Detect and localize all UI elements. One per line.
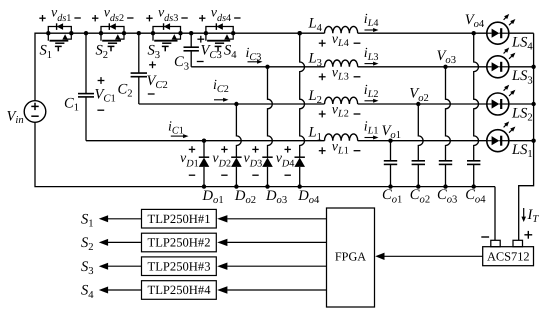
junction: D1 anode on ground rail [202,184,206,188]
transistor S3 (MOSFET switch) [153,33,181,51]
junction: S1 drain node [46,31,50,35]
label V_C3 with polarity [197,36,222,62]
label v_D4 with polarity [276,146,295,175]
diode Do2 (output diode, cathode up) [231,104,242,187]
wire: top rail from L4 coil to LED LS4 anode [358,32,487,34]
wire: i_C1 / L1 rail from C1 to L1 coil [86,140,325,142]
junction: D4 anode-side tap [298,31,302,35]
label i_C2 with current arrow [213,78,229,102]
junction: C2 tap on switch rail [137,31,141,35]
label v_ds2 with polarity [92,5,134,23]
label L4 [308,16,323,34]
wire: ground rail down to ACS712 - terminal [494,187,496,241]
LED string LS1 [487,121,516,151]
label S2 at switch [96,43,109,61]
label v_D2 with polarity [212,146,231,175]
label v_L2 with polarity [319,103,361,120]
label v_ds4 with polarity [199,5,241,23]
label S1 at switch [40,43,53,61]
controller FPGA [327,208,375,307]
junction: D2 anode-side tap [234,102,238,106]
label Co2 [410,187,430,205]
body diode of S3 [153,23,181,33]
wire: i_C3 / L3 rail from C3 to L3 coil [191,66,324,68]
svg-text:TLP250H#4: TLP250H#4 [148,283,212,297]
wire: TLP250H#4 output to gate S4 with arrowhead [99,287,142,294]
label C1 [64,96,79,114]
inductor L3 [325,60,358,67]
label LS2 [511,105,533,123]
wire: TLP250H#3 output to gate S3 with arrowhead [99,263,142,270]
junction: Co4 on ground rail [472,184,476,188]
wire: TLP250H#1 output to gate S1 with arrowhead [99,215,142,222]
svg-text:TLP250H#2: TLP250H#2 [148,236,211,250]
label Do1 [202,188,224,206]
svg-text:ACS712: ACS712 [487,249,530,263]
label Vo1 [382,123,402,141]
wire: LED LS1 cathode to right bus [509,140,534,142]
wire: L3 rail from coil to LED LS3 [358,66,487,68]
body diode of S4 [206,23,233,33]
wire: FPGA output to TLP250H#3 with arrowhead [217,263,326,270]
junction: S2 source node [122,31,126,35]
label i_L4 with current arrow [364,12,379,32]
junction: LS2 cathode on right bus [531,102,535,106]
wire: FPGA output to TLP250H#2 with arrowhead [217,239,326,246]
label V_C2 with polarity [147,61,168,94]
label i_C3 with current arrow [246,46,263,64]
label i_L2 with current arrow [364,83,379,103]
junction: Co3 on ground rail [443,184,447,188]
junction: C1 tap on switch rail [84,31,88,35]
capacitor C1 [78,33,94,141]
label v_ds1 with polarity [39,5,81,23]
wire: LED LS4 cathode to right bus [509,32,534,34]
label V_C1 with polarity [95,77,116,110]
label C3 [174,54,189,72]
capacitor Co1 [384,141,397,187]
gate driver TLP250H#1 [142,209,217,228]
junction: Co1 on ground rail [388,184,392,188]
junction: Vo4 tap on L4 rail [472,31,476,35]
body diode of S2 [101,23,124,33]
label Vo3 [437,48,457,66]
wire: right cathode bus down to ACS712 + terminal [519,33,534,240]
junction: S3 drain node [151,31,155,35]
label Vin [7,109,24,127]
junction: S1 source node [69,31,73,35]
wire: L2 rail from coil to LED LS2 [358,103,487,105]
voltage source Vin [24,101,46,123]
transistor S2 (MOSFET switch) [101,33,124,51]
transistor S4 (MOSFET switch) [206,33,233,51]
label v_D3 with polarity [244,146,263,175]
wire: LED LS3 cathode to right bus [509,66,534,68]
label v_L3 with polarity [319,65,361,82]
diode Do3 (output diode, cathode up) [262,67,273,187]
capacitor Co4 [467,33,480,186]
label i_L3 with current arrow [364,46,379,66]
label Vo2 [409,86,429,104]
label LS1 [511,142,533,160]
junction: D3 anode-side tap [265,65,269,69]
gate driver TLP250H#4 [142,281,217,300]
capacitor Co3 [439,67,452,187]
capacitor Co2 [412,104,425,187]
label S4 at switch [224,43,237,61]
label S2 gate signal [81,235,94,253]
junction: Vo1 tap on L1 rail [388,139,392,143]
junction: S4 drain node [204,31,208,35]
label Do2 [234,188,256,206]
junction: D3 anode on ground rail [265,184,269,188]
capacitor C2 [131,33,147,104]
label LS4 [511,35,533,53]
label Do3 [265,188,287,206]
wire: LED LS2 cathode to right bus [509,103,534,105]
label L2 [308,88,322,106]
junction: LS3 cathode on right bus [531,65,535,69]
junction: D4 anode on ground rail [298,184,302,188]
label C2 [118,82,133,100]
diode Do1 (output diode, cathode up) [199,141,210,187]
junction: Vo2 tap on L2 rail [416,102,420,106]
capacitor C3 [184,33,199,67]
label I_T with current arrow [521,207,539,225]
label - terminal of ACS712 [481,236,489,238]
transistor S1 (MOSFET switch) [48,33,71,51]
LED string LS3 [487,48,516,78]
svg-text:TLP250H#1: TLP250H#1 [148,212,211,226]
svg-text:FPGA: FPGA [335,250,366,264]
label Co1 [382,187,402,205]
wire: TLP250H#2 output to gate S2 with arrowhead [99,239,142,246]
wire: ACS712 output to FPGA with arrowhead [375,253,483,260]
label S3 gate signal [81,259,94,277]
label Co4 [465,187,486,205]
label Vo4 [465,12,485,30]
label v_L1 with polarity [319,139,361,156]
label Co3 [437,187,457,205]
svg-text:TLP250H#3: TLP250H#3 [148,259,211,273]
label L1 [308,125,322,143]
gate driver TLP250H#3 [142,257,217,276]
label Do4 [297,188,320,206]
junction: LS1 cathode on right bus [531,139,535,143]
gate driver TLP250H#2 [142,233,217,252]
junction: D2 anode on ground rail [234,184,238,188]
junction: Co2 on ground rail [416,184,420,188]
label S1 gate signal [81,211,94,229]
wire: FPGA output to TLP250H#4 with arrowhead [217,286,326,293]
junction: C3 tap on switch rail [189,31,193,35]
label i_C1 with current arrow [168,120,189,139]
inductor L2 [325,97,358,104]
label L3 [308,51,322,69]
junction: S4 source node [231,31,235,35]
junction: Vo3 tap on L3 rail [443,65,447,69]
inductor L4 [325,26,358,33]
label i_L1 with current arrow [364,120,379,140]
label v_L4 with polarity [319,32,361,49]
label v_D1 with polarity [180,146,199,175]
body diode of S1 [48,23,71,33]
label LS3 [511,68,533,86]
label + terminal of ACS712 [524,231,532,239]
wire: input source top lead, top rail from Vin to L4 coil [35,33,325,101]
LED string LS2 [487,85,516,115]
diode Do4 (output diode, cathode up) [294,33,305,186]
junction: S3 source node [178,31,182,35]
wire: L1 rail from coil to LED LS1 [358,140,487,142]
label S4 gate signal [81,283,94,301]
LED string LS4 [487,14,516,44]
junction: D1 anode-side tap [202,139,206,143]
inductor L1 [325,134,358,141]
current sensor ACS712 [483,240,534,265]
wire: input source bottom lead and bottom ground rail [35,122,495,186]
junction: S2 drain node [99,31,103,35]
label v_ds3 with polarity [146,5,188,23]
label S3 at switch [148,43,161,61]
wire: FPGA output to TLP250H#1 with arrowhead [217,215,326,222]
junction: D4 top node on switch rail [298,31,302,35]
wire: i_C2 / L2 rail from C2 to L2 coil [139,103,325,105]
